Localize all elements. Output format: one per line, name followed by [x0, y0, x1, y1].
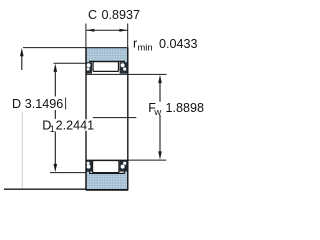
svg-text:3.1496: 3.1496 [25, 97, 64, 111]
svg-text:w: w [153, 107, 161, 118]
svg-text:2.2441: 2.2441 [56, 118, 95, 132]
svg-text:D: D [12, 97, 21, 111]
svg-text:0.8937: 0.8937 [102, 8, 141, 22]
svg-text:min: min [137, 42, 152, 53]
svg-text:C: C [88, 8, 97, 22]
svg-text:0.0433: 0.0433 [159, 37, 198, 51]
svg-text:1.8898: 1.8898 [166, 101, 205, 115]
svg-text:1: 1 [50, 124, 55, 134]
